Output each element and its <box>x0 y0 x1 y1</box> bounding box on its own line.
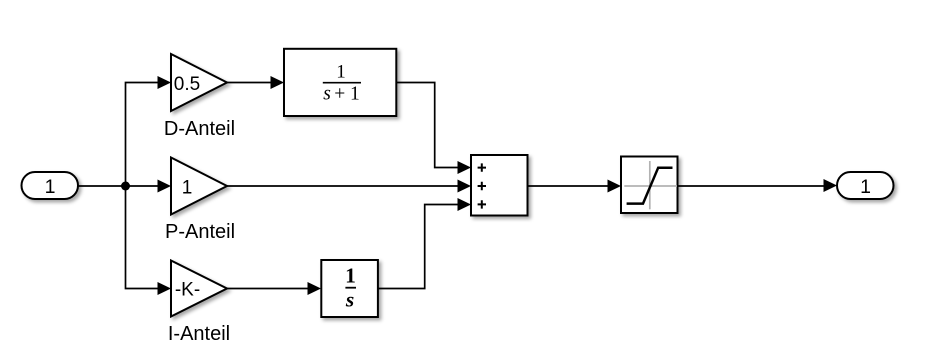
svg-text:1: 1 <box>860 176 871 198</box>
svg-text:1: 1 <box>182 178 193 199</box>
svg-text:D-Anteil: D-Anteil <box>164 118 235 140</box>
svg-text:1: 1 <box>336 62 346 83</box>
svg-text:-K-: -K- <box>175 280 200 301</box>
svg-text:I-Anteil: I-Anteil <box>168 323 230 345</box>
svg-text:s: s <box>345 288 354 312</box>
svg-text:0.5: 0.5 <box>174 74 200 95</box>
svg-text:1: 1 <box>345 264 356 288</box>
svg-text:1: 1 <box>45 176 56 198</box>
svg-text:s+1: s+1 <box>323 84 360 105</box>
svg-text:P-Anteil: P-Anteil <box>165 221 235 243</box>
